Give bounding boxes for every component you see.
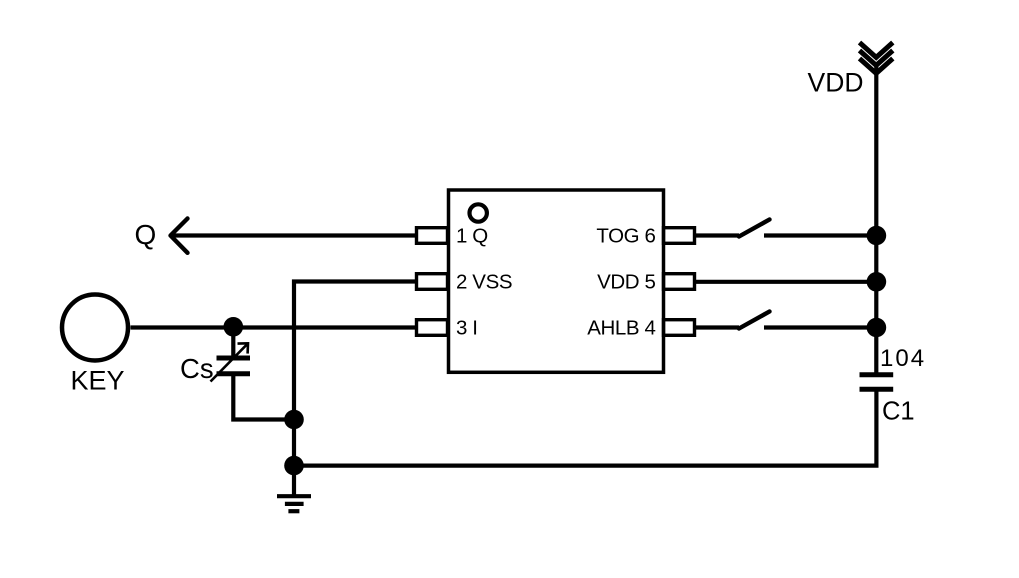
wire KEY to pin 3: [131, 325, 417, 329]
pin 1 pad: [417, 228, 448, 244]
svg-text:3 I: 3 I: [456, 317, 478, 340]
svg-text:Cs: Cs: [180, 353, 214, 384]
pin 6 pad: [664, 228, 695, 244]
junction node VDD pin/rail: [867, 272, 887, 292]
svg-text:C1: C1: [882, 398, 915, 426]
pin label 2 VSS: [456, 271, 512, 294]
svg-text:TOG 6: TOG 6: [596, 225, 655, 248]
switch AHLB: [739, 312, 770, 329]
switch TOG: [739, 220, 770, 237]
pin label TOG 6: [596, 225, 655, 248]
junction node TOG/VDD rail: [867, 226, 887, 246]
arrowhead Q output: [171, 219, 188, 253]
wire Q output: [172, 233, 417, 237]
svg-text:VDD 5: VDD 5: [597, 271, 655, 294]
svg-text:KEY: KEY: [70, 366, 124, 396]
pin label AHLB 4: [587, 317, 655, 340]
wire Cs top lead: [231, 327, 235, 358]
arrow across Cs (variable symbol): [211, 343, 249, 381]
label KEY: [70, 366, 124, 396]
label 104: [880, 345, 926, 372]
junction node VSS/bottom rail: [284, 456, 304, 476]
wire bottom rail to C1: [294, 389, 876, 465]
capacitor Cs (variable): [217, 358, 251, 374]
pin 2 pad: [417, 274, 448, 290]
label Cs: [180, 353, 214, 384]
wire switch to VDD rail (TOG): [764, 233, 876, 237]
pin label 3 I: [456, 317, 478, 340]
ground: [277, 496, 311, 511]
pin label VDD 5: [597, 271, 655, 294]
pin 4 pad: [664, 320, 695, 336]
wire switch to VDD rail (AHLB): [764, 325, 876, 329]
svg-text:VDD: VDD: [808, 67, 864, 97]
KEY electrode circle: [62, 295, 128, 361]
svg-text:104: 104: [880, 345, 926, 372]
svg-text:2 VSS: 2 VSS: [456, 271, 512, 294]
svg-text:Q: Q: [135, 219, 157, 250]
wire pin 6 TOG to switch: [695, 233, 740, 237]
junction node Cs/VSS: [284, 410, 304, 430]
power symbol VDD: [860, 43, 893, 74]
wire pin 5 VDD to rail: [695, 280, 877, 284]
wire VDD rail: [874, 66, 878, 375]
wire pin 4 AHLB to switch: [695, 325, 740, 329]
svg-text:AHLB 4: AHLB 4: [587, 317, 655, 340]
label Q: [135, 219, 157, 250]
pin-1 indicator circle: [470, 204, 487, 221]
wire pin 2 VSS to ground: [294, 282, 417, 497]
junction node KEY/Cs: [224, 317, 244, 337]
IC U1 body: [449, 190, 664, 372]
wire Cs bottom lead to VSS node: [233, 374, 294, 420]
pin 5 pad: [664, 274, 695, 290]
junction node AHLB/VDD rail: [867, 318, 887, 338]
pin 3 pad: [417, 320, 448, 336]
capacitor C1: [860, 375, 894, 390]
label C1: [882, 398, 915, 426]
svg-text:1 Q: 1 Q: [456, 225, 488, 248]
pin label 1 Q: [456, 225, 488, 248]
label VDD: [808, 67, 864, 97]
